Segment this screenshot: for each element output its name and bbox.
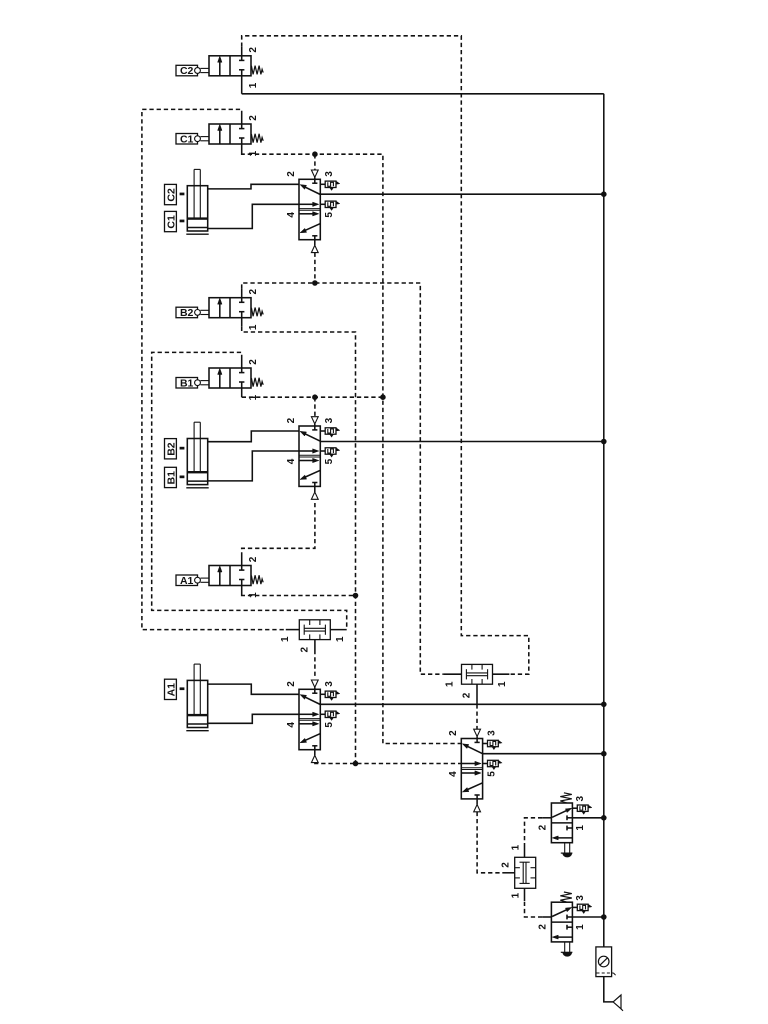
svg-text:2: 2 (538, 824, 549, 830)
wire M output to VK bottom pilot (dashed) (477, 812, 502, 873)
svg-text:5: 5 (324, 458, 335, 464)
svg-text:3: 3 (324, 681, 335, 687)
svg-text:2: 2 (286, 681, 297, 687)
silencer at port 3 of L2 (572, 906, 577, 908)
svg-text:5: 5 (324, 212, 335, 218)
svg-text:B2: B2 (180, 307, 194, 319)
wire stub H right input (330, 629, 346, 631)
node at rail y917 (601, 914, 607, 920)
position marker B2 of cylinder B (165, 439, 185, 459)
svg-text:2: 2 (286, 417, 297, 423)
svg-text:2: 2 (538, 924, 549, 930)
svg-text:4: 4 (286, 212, 297, 218)
svg-text:C2: C2 (166, 188, 178, 202)
svg-text:1: 1 (497, 681, 508, 687)
pneumatic pilot top of VK (474, 729, 481, 738)
silencer at port 3 of VK (483, 743, 488, 745)
valve L2 (3/2 push-button valve) (551, 892, 572, 957)
valve SB2 (3/2 signal valve B2) (176, 298, 263, 319)
node C1 signal to VC pilot (312, 151, 318, 157)
node at rail y194 (601, 191, 607, 197)
silencer at port 3 of L1 (572, 807, 577, 809)
air service unit (596, 947, 616, 977)
svg-text:2: 2 (286, 171, 297, 177)
svg-text:5: 5 (487, 771, 498, 777)
node B1 signal joins C1 line (380, 394, 386, 400)
two-pressure valve M (515, 857, 536, 888)
svg-text:1: 1 (575, 825, 586, 831)
wire valve B port 1 to rail (320, 441, 604, 443)
pneumatic pilot bottom of VB (311, 486, 318, 499)
svg-text:4: 4 (286, 722, 297, 728)
svg-text:1: 1 (248, 324, 259, 330)
svg-text:B2: B2 (166, 442, 178, 456)
svg-text:3: 3 (575, 796, 586, 802)
pneumatic pilot bottom of VK (474, 799, 481, 812)
wire stub H left input (286, 629, 300, 631)
svg-text:5: 5 (324, 722, 335, 728)
svg-text:4: 4 (448, 771, 459, 777)
svg-text:A1: A1 (166, 683, 178, 697)
silencer at port 5 of VB (320, 450, 325, 452)
position marker C1 of cylinder C (165, 211, 185, 231)
cylinder C (double-acting) (186, 169, 208, 234)
svg-text:1: 1 (575, 924, 586, 930)
silencer at port 3 of VC (320, 183, 325, 185)
wire H output to VA top pilot (314, 640, 316, 650)
two-pressure valve J (462, 664, 493, 684)
svg-text:1: 1 (280, 636, 291, 642)
wire stub M output (502, 872, 514, 874)
cylinder B (double-acting) (186, 422, 208, 488)
cylinder A (double-acting) (186, 664, 208, 731)
svg-text:C1: C1 (180, 133, 194, 145)
node at rail y817 (601, 815, 607, 821)
node at rail y753 (601, 751, 607, 757)
wire B1 port 1 signal (dashed) (241, 388, 243, 397)
position marker A1 of cylinder A (165, 679, 185, 699)
svg-text:2: 2 (248, 115, 259, 121)
position marker C2 of cylinder C (165, 184, 185, 204)
svg-text:1: 1 (511, 844, 522, 850)
wire valve C port 1 to rail (320, 193, 604, 195)
wire valve K port 1 to rail (483, 753, 604, 755)
wire cylinder A cap end to valve A port 2 (208, 684, 299, 694)
wire to VC top pilot (dashed) (314, 154, 316, 170)
wire valve L2 port 1 to rail (572, 916, 603, 918)
svg-text:B1: B1 (180, 377, 194, 389)
svg-text:3: 3 (575, 895, 586, 901)
svg-text:1: 1 (335, 636, 346, 642)
valve L1 (3/2 push-button valve) (551, 793, 572, 858)
svg-text:2: 2 (248, 47, 259, 53)
pneumatic pilot top of VC (311, 170, 318, 179)
silencer at port 3 of VA (320, 693, 325, 695)
valve VA (5/2 pneumatic valve) (299, 689, 320, 749)
valve SA1 (3/2 signal valve A1) (176, 566, 263, 587)
svg-text:2: 2 (248, 289, 259, 295)
silencer at port 5 of VC (320, 203, 325, 205)
svg-text:3: 3 (324, 417, 335, 423)
svg-text:B1: B1 (166, 471, 178, 485)
wire supply rail vertical (603, 94, 605, 947)
svg-text:1: 1 (511, 892, 522, 898)
position marker B1 of cylinder B (165, 467, 185, 487)
node at rail y441 (601, 439, 607, 445)
svg-text:2: 2 (299, 647, 310, 653)
wire from valve C2 port 1 down (241, 76, 243, 94)
wire stub J left input (444, 673, 462, 675)
valve SC1 (3/2 signal valve C1) (176, 124, 263, 145)
wire J output to VK top pilot (476, 684, 478, 704)
wire to VC bottom pilot (dashed) (314, 253, 316, 283)
svg-text:4: 4 (286, 458, 297, 464)
node B1 signal to VB pilot (312, 394, 318, 400)
svg-text:1: 1 (248, 150, 259, 156)
svg-text:C1: C1 (166, 215, 178, 229)
silencer at port 3 of VB (320, 430, 325, 432)
node A1 signal joins B2 line (353, 593, 359, 599)
wire C1 port 2 signal (dashed) (241, 115, 243, 124)
pneumatic pilot bottom of VA (311, 750, 318, 763)
wire supply header to rail (242, 93, 604, 95)
valve SB1 (3/2 signal valve B1) (176, 368, 263, 389)
compressed air source (613, 995, 623, 1011)
svg-text:2: 2 (248, 556, 259, 562)
wire service unit to source (604, 977, 613, 1002)
wire L2 port 2 to M bottom input (542, 916, 551, 918)
wire L1 port 2 to M top input (542, 817, 551, 819)
svg-text:3: 3 (324, 171, 335, 177)
wire valve L1 port 1 to rail (572, 817, 603, 819)
wire stub J right input (493, 673, 510, 675)
wire cylinder B cap end to valve B port 2 (208, 431, 299, 442)
silencer at port 5 of VA (320, 713, 325, 715)
svg-text:C2: C2 (180, 65, 194, 77)
wire A1 port 1 signal (dashed) (241, 586, 243, 595)
svg-text:1: 1 (445, 681, 456, 687)
wire C2 port 2 signal (dashed) (241, 47, 243, 56)
wire cylinder A rod end to valve A port 4 (208, 714, 299, 723)
wire A1 port 2 signal (dashed) (241, 557, 243, 566)
valve VB (5/2 pneumatic valve) (299, 426, 320, 486)
wire B1 port 2 signal (dashed) (241, 359, 243, 368)
svg-text:2: 2 (461, 692, 472, 698)
svg-text:1: 1 (248, 82, 259, 88)
wire VA bottom pilot to VK port 4 (dashed) (315, 762, 461, 765)
svg-text:A1: A1 (180, 575, 194, 587)
valve VC (5/2 pneumatic valve) (299, 179, 320, 239)
wire valve A port 1 to rail (320, 703, 604, 705)
wire cylinder B rod end to valve B port 4 (208, 451, 299, 481)
wire B2 port 1 signal (dashed) (241, 318, 243, 327)
wire B2 port 2 signal (dashed) (241, 289, 243, 298)
pneumatic pilot bottom of VC (311, 240, 318, 253)
svg-text:2: 2 (500, 862, 511, 868)
pneumatic pilot top of VB (311, 417, 318, 426)
svg-text:2: 2 (248, 359, 259, 365)
node B2 signal to VC bottom pilot (312, 280, 318, 286)
svg-text:2: 2 (448, 730, 459, 736)
two-pressure valve H (299, 620, 330, 640)
node at VK port 4 line (353, 761, 359, 767)
node at rail y704 (601, 702, 607, 708)
valve SC2 (3/2 signal valve C2) (176, 56, 263, 77)
wire to VB top pilot (dashed) (314, 397, 316, 417)
valve VK (5/2 pneumatic valve) (461, 739, 482, 799)
wire cylinder C rod end to valve C port 4 (208, 204, 299, 228)
svg-text:3: 3 (487, 730, 498, 736)
wire C1 port 1 signal (dashed) (241, 144, 243, 153)
silencer at port 5 of VK (483, 763, 488, 765)
pneumatic pilot top of VA (311, 680, 318, 689)
wire cylinder C cap end to valve C port 2 (208, 184, 299, 189)
